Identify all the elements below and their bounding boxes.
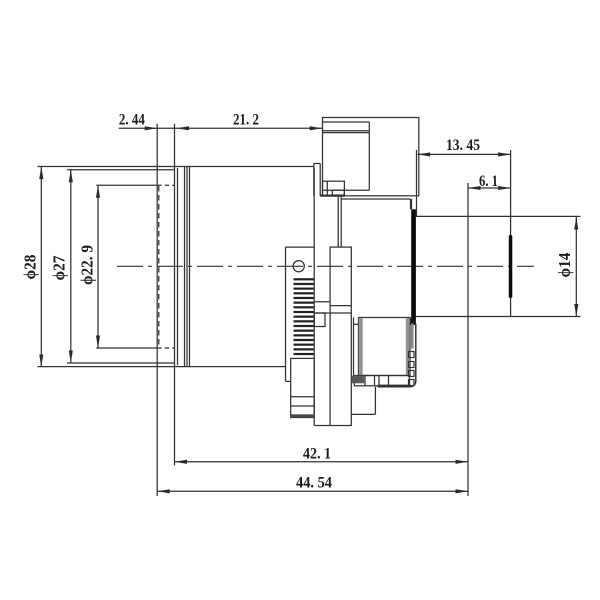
svg-text:42. 1: 42. 1 <box>303 445 331 462</box>
svg-text:ϕ27: ϕ27 <box>49 256 68 281</box>
svg-text:6. 1: 6. 1 <box>479 173 498 190</box>
svg-text:2. 44: 2. 44 <box>119 112 145 129</box>
svg-text:ϕ14: ϕ14 <box>555 253 574 278</box>
svg-text:21. 2: 21. 2 <box>233 111 259 128</box>
svg-text:13. 45: 13. 45 <box>446 137 480 154</box>
svg-text:ϕ28: ϕ28 <box>21 255 40 280</box>
svg-text:ϕ22. 9: ϕ22. 9 <box>77 245 96 285</box>
svg-text:44. 54: 44. 54 <box>296 475 332 492</box>
